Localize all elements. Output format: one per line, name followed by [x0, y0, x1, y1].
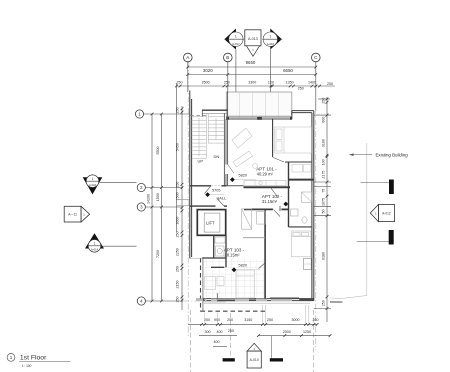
svg-text:LIFT: LIFT: [206, 221, 215, 226]
svg-text:5450: 5450: [176, 143, 180, 151]
svg-text:400: 400: [217, 330, 223, 334]
svg-text:A-016: A-016: [267, 42, 275, 46]
svg-text:600: 600: [321, 117, 325, 123]
svg-text:DN: DN: [214, 154, 220, 159]
svg-text:50: 50: [321, 210, 325, 214]
svg-text:9650: 9650: [246, 60, 256, 65]
svg-text:250: 250: [176, 297, 180, 303]
svg-text:950: 950: [214, 318, 220, 322]
svg-text:100: 100: [321, 159, 325, 165]
svg-text:250: 250: [298, 87, 304, 91]
svg-text:2500: 2500: [202, 81, 210, 85]
svg-text:6180: 6180: [321, 252, 325, 260]
svg-text:1400: 1400: [308, 81, 316, 85]
svg-text:28.15m²: 28.15m²: [224, 252, 240, 257]
svg-text:1: 1: [94, 242, 96, 246]
svg-text:2250: 2250: [176, 248, 180, 256]
svg-text:6650: 6650: [283, 68, 293, 73]
svg-text:1500: 1500: [156, 193, 160, 201]
svg-text:A-018: A-018: [89, 183, 96, 187]
svg-text:250: 250: [228, 329, 234, 333]
svg-text:A-010: A-010: [250, 358, 259, 362]
svg-text:1: 1: [10, 355, 13, 360]
svg-text:3100: 3100: [321, 139, 325, 147]
svg-text:1st Floor: 1st Floor: [20, 355, 47, 362]
svg-text:A—11: A—11: [68, 213, 77, 217]
svg-text:250: 250: [176, 182, 180, 188]
svg-text:250: 250: [177, 81, 183, 85]
svg-text:UP: UP: [198, 158, 204, 163]
svg-text:250: 250: [321, 300, 325, 306]
svg-text:250: 250: [176, 232, 180, 238]
svg-text:31.15m²: 31.15m²: [262, 199, 278, 204]
svg-text:3020: 3020: [203, 68, 213, 73]
svg-text:100: 100: [268, 81, 274, 85]
svg-text:250: 250: [176, 266, 180, 272]
svg-text:5820: 5820: [239, 263, 247, 267]
svg-text:250: 250: [227, 318, 233, 322]
svg-text:250: 250: [327, 82, 333, 86]
svg-text:Existing Building: Existing Building: [376, 152, 409, 157]
svg-text:3000: 3000: [292, 318, 300, 322]
svg-text:7200: 7200: [156, 250, 160, 258]
svg-text:5820: 5820: [239, 174, 247, 178]
svg-text:40.29 m²: 40.29 m²: [257, 171, 274, 176]
svg-text:75: 75: [321, 189, 325, 193]
svg-text:A-017: A-017: [232, 42, 240, 46]
svg-text:2150: 2150: [176, 281, 180, 289]
svg-text:A-012: A-012: [382, 212, 391, 216]
svg-text:250: 250: [224, 81, 230, 85]
svg-text:2175: 2175: [321, 171, 325, 179]
svg-text:1600: 1600: [176, 217, 180, 225]
svg-text:250: 250: [313, 318, 319, 322]
svg-text:250: 250: [176, 107, 180, 113]
svg-text:250: 250: [321, 98, 325, 104]
svg-text:2000: 2000: [283, 330, 291, 334]
svg-text:HALL: HALL: [217, 195, 228, 200]
svg-text:900: 900: [278, 206, 282, 211]
svg-text:5500: 5500: [156, 147, 160, 155]
svg-text:A-013: A-013: [248, 37, 258, 41]
svg-text:300: 300: [205, 330, 211, 334]
svg-text:1: 1: [235, 35, 237, 39]
svg-text:14200: 14200: [147, 194, 151, 204]
svg-text:1: 1: [92, 177, 94, 181]
svg-text:1250: 1250: [303, 330, 311, 334]
svg-text:B: B: [226, 55, 229, 60]
svg-text:400: 400: [214, 340, 220, 344]
svg-text:1075: 1075: [321, 198, 325, 206]
svg-text:1350: 1350: [286, 81, 294, 85]
svg-text:1 : 100: 1 : 100: [22, 364, 32, 368]
svg-text:3300: 3300: [248, 81, 256, 85]
svg-text:3150: 3150: [244, 318, 252, 322]
svg-text:250: 250: [267, 318, 273, 322]
svg-text:5705: 5705: [212, 189, 220, 193]
svg-text:1: 1: [269, 35, 271, 39]
svg-text:A-014: A-014: [91, 248, 98, 252]
